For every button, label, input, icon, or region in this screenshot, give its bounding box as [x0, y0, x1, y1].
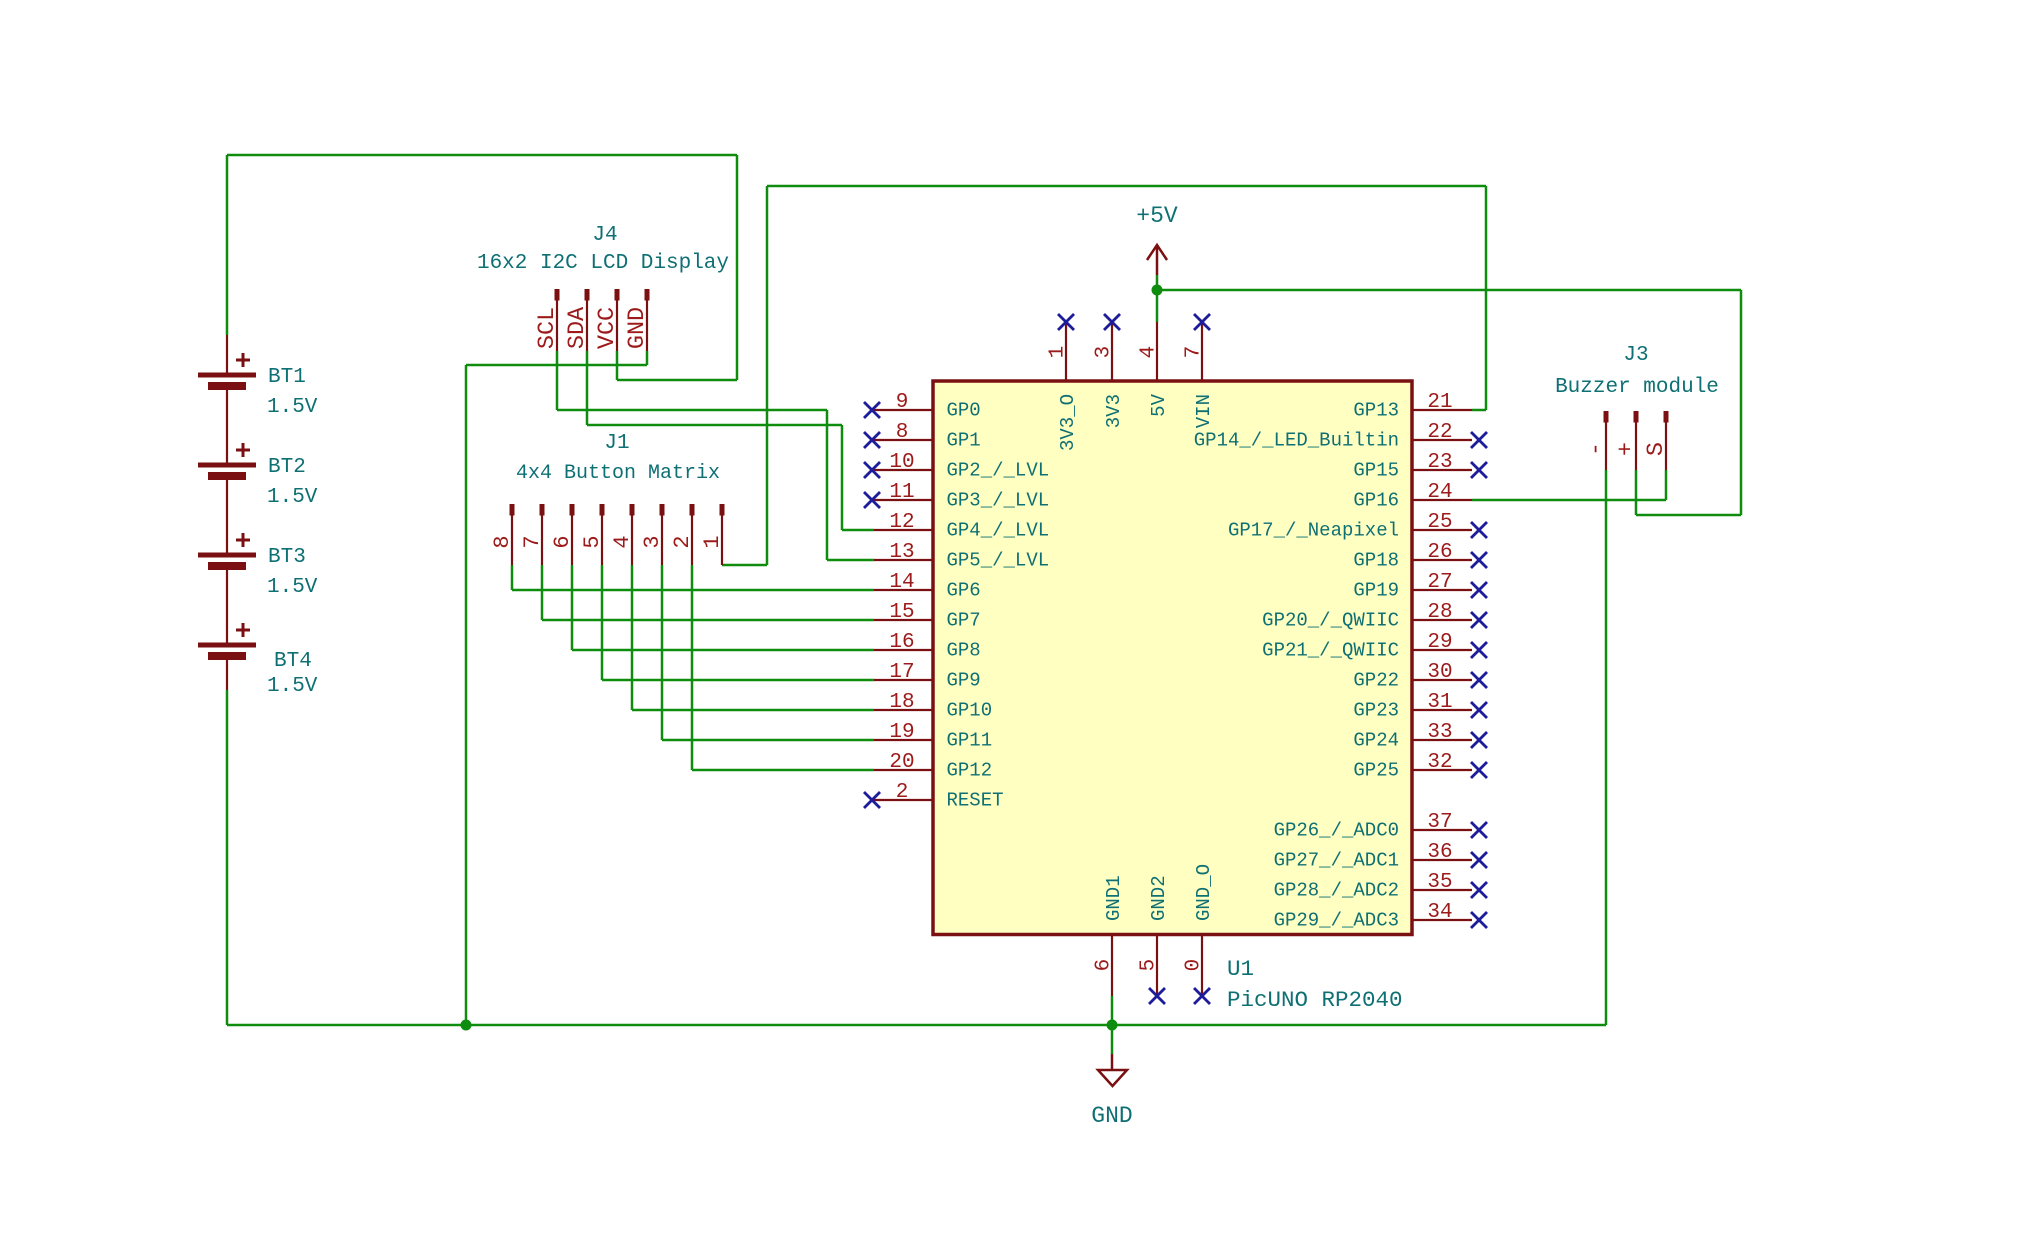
svg-text:7: 7 [520, 535, 545, 548]
pin 33 GP24 of U1 (right) [1353, 721, 1487, 752]
svg-text:GP29_/_ADC3: GP29_/_ADC3 [1274, 910, 1399, 932]
svg-text:30: 30 [1427, 661, 1452, 684]
svg-text:16x2 I2C LCD Display: 16x2 I2C LCD Display [477, 252, 729, 275]
pin 5 GND2 of U1 (bottom) [1138, 875, 1171, 1004]
pin 3 of J1 [640, 504, 665, 565]
wire J4 GND drop [646, 351, 649, 365]
wire J1 pin x662 vertical [661, 565, 664, 740]
svg-text:GND: GND [624, 307, 651, 349]
svg-text:3V3: 3V3 [1103, 394, 1125, 428]
pin 34 GP29_/_ADC3 of U1 (right) [1274, 901, 1487, 932]
svg-text:GND1: GND1 [1103, 875, 1125, 921]
wire SCL vertical [826, 410, 829, 560]
svg-text:5: 5 [580, 535, 605, 548]
pin 16 GP8 of U1 (left) [874, 631, 981, 662]
wire GP13 vertical [1485, 186, 1488, 410]
pin 7 VIN of U1 (top) [1183, 314, 1216, 428]
pin S of J3 [1643, 411, 1670, 470]
svg-text:BT3: BT3 [268, 546, 306, 569]
svg-text:GND_O: GND_O [1193, 864, 1215, 921]
wire GND bottom rail [227, 1024, 1606, 1027]
pin 1 3V3_O of U1 (top) [1047, 314, 1080, 451]
svg-text:GP0: GP0 [947, 400, 981, 422]
wire GP16 to buzzer S [1472, 499, 1666, 502]
battery BT3 [198, 533, 256, 570]
svg-text:3: 3 [1093, 346, 1116, 359]
svg-text:11: 11 [889, 481, 914, 504]
svg-text:GP9: GP9 [947, 670, 981, 692]
pin 3 3V3 of U1 (top) [1093, 314, 1126, 428]
svg-text:8: 8 [896, 421, 909, 444]
svg-text:10: 10 [889, 451, 914, 474]
svg-text:16: 16 [889, 631, 914, 654]
pin GND of J4 [624, 289, 651, 351]
svg-text:1.5V: 1.5V [267, 576, 318, 599]
IC U1 PicUNO RP2040 body [933, 381, 1412, 935]
wire +5V to 5V pin [1156, 275, 1159, 322]
wire battery bottom vertical [226, 690, 229, 1025]
svg-text:2: 2 [896, 781, 909, 804]
svg-text:GP12: GP12 [947, 760, 993, 782]
wire J1 pin to U1 row 770 [692, 769, 874, 772]
wire J1 pin to U1 row 620 [542, 619, 874, 622]
junction GND rail / GND1 [1107, 1020, 1118, 1031]
svg-text:S: S [1643, 442, 1670, 456]
svg-text:GP21_/_QWIIC: GP21_/_QWIIC [1262, 640, 1399, 662]
svg-text:15: 15 [889, 601, 914, 624]
wire J1 pin1 stub [722, 564, 767, 567]
svg-text:3V3_O: 3V3_O [1057, 394, 1079, 451]
pin 20 GP12 of U1 (left) [874, 751, 992, 782]
pin 30 GP22 of U1 (right) [1353, 661, 1487, 692]
wire VCC horizontal [617, 379, 737, 382]
wire GND1 to GND symbol [1111, 996, 1114, 1054]
svg-text:9: 9 [896, 391, 909, 414]
svg-text:18: 18 [889, 691, 914, 714]
svg-text:GP3_/_LVL: GP3_/_LVL [947, 490, 1050, 512]
pin 28 GP20_/_QWIIC of U1 (right) [1262, 601, 1487, 632]
svg-text:SCL: SCL [534, 307, 561, 349]
svg-text:6: 6 [1093, 959, 1116, 972]
svg-text:1.5V: 1.5V [267, 675, 318, 698]
svg-text:36: 36 [1427, 841, 1452, 864]
svg-text:1: 1 [1047, 346, 1070, 359]
svg-text:19: 19 [889, 721, 914, 744]
pin 22 GP14_/_LED_Builtin of U1 (right) [1194, 421, 1487, 452]
wire +5V horizontal [1157, 289, 1741, 292]
wire J4 VCC drop [616, 351, 619, 380]
wire BT1+ to J4 VCC top horizontal [227, 154, 737, 157]
wire J1 pin to U1 row 590 [512, 589, 874, 592]
pin SDA of J4 [564, 289, 591, 351]
svg-text:7: 7 [1183, 346, 1206, 359]
pin - of J3 [1583, 411, 1610, 470]
svg-text:6: 6 [550, 535, 575, 548]
svg-text:GP2_/_LVL: GP2_/_LVL [947, 460, 1050, 482]
svg-text:28: 28 [1427, 601, 1452, 624]
svg-text:GP13: GP13 [1353, 400, 1399, 422]
pin 13 GP5_/_LVL of U1 (left) [874, 541, 1049, 572]
svg-text:GP19: GP19 [1353, 580, 1399, 602]
svg-text:GP1: GP1 [947, 430, 981, 452]
pin 35 GP28_/_ADC2 of U1 (right) [1274, 871, 1487, 902]
pin 24 GP16 of U1 (right) [1353, 481, 1472, 512]
pin 18 GP10 of U1 (left) [874, 691, 992, 722]
pin 27 GP19 of U1 (right) [1353, 571, 1487, 602]
svg-text:GP11: GP11 [947, 730, 993, 752]
pin 1 of J1 [700, 504, 725, 565]
svg-text:14: 14 [889, 571, 914, 594]
svg-text:GP5_/_LVL: GP5_/_LVL [947, 550, 1050, 572]
svg-text:GP15: GP15 [1353, 460, 1399, 482]
wire SCL into GP5 [827, 559, 874, 562]
wire J4 SCL drop [556, 351, 559, 410]
svg-text:5: 5 [1138, 959, 1161, 972]
wire buzzer S drop [1665, 470, 1668, 500]
svg-text:25: 25 [1427, 511, 1452, 534]
svg-text:VIN: VIN [1193, 394, 1215, 428]
junction +5V node [1152, 285, 1163, 296]
pin 7 of J1 [520, 504, 545, 565]
pin 17 GP9 of U1 (left) [874, 661, 981, 692]
pin 23 GP15 of U1 (right) [1353, 451, 1487, 482]
svg-text:GP16: GP16 [1353, 490, 1399, 512]
svg-text:1.5V: 1.5V [267, 486, 318, 509]
svg-text:Buzzer module: Buzzer module [1555, 376, 1719, 399]
battery BT4 [198, 623, 256, 660]
svg-text:31: 31 [1427, 691, 1452, 714]
svg-text:GP27_/_ADC1: GP27_/_ADC1 [1274, 850, 1399, 872]
pin 5 of J1 [580, 504, 605, 565]
svg-text:J3: J3 [1623, 344, 1648, 367]
svg-text:8: 8 [490, 535, 515, 548]
pin SCL of J4 [534, 289, 561, 351]
wire +5V right vertical [1740, 290, 1743, 515]
pin 10 GP2_/_LVL of U1 (left) [864, 451, 1049, 482]
svg-text:+: + [1613, 442, 1640, 456]
wire J1 pin to U1 row 710 [632, 709, 874, 712]
pin 4 of J1 [610, 504, 635, 565]
wire J1 pin1 riser [766, 186, 769, 565]
pin 14 GP6 of U1 (left) [874, 571, 981, 602]
svg-text:BT2: BT2 [268, 456, 306, 479]
svg-text:13: 13 [889, 541, 914, 564]
svg-text:RESET: RESET [947, 790, 1004, 812]
wire J1 pin to U1 row 680 [602, 679, 874, 682]
svg-text:GP10: GP10 [947, 700, 993, 722]
svg-text:22: 22 [1427, 421, 1452, 444]
svg-text:32: 32 [1427, 751, 1452, 774]
svg-text:+5V: +5V [1136, 203, 1178, 229]
wire J4 SDA drop [586, 351, 589, 425]
svg-text:GP28_/_ADC2: GP28_/_ADC2 [1274, 880, 1399, 902]
pin 25 GP17_/_Neapixel of U1 (right) [1228, 511, 1487, 542]
svg-text:4: 4 [1138, 346, 1161, 359]
svg-text:PicUNO RP2040: PicUNO RP2040 [1227, 987, 1403, 1013]
svg-text:J4: J4 [592, 224, 617, 247]
svg-text:23: 23 [1427, 451, 1452, 474]
svg-text:SDA: SDA [564, 306, 591, 349]
ground symbol GND [1098, 1054, 1127, 1086]
pin 37 GP26_/_ADC0 of U1 (right) [1274, 811, 1487, 842]
wire SDA into GP4 [842, 529, 874, 532]
svg-text:37: 37 [1427, 811, 1452, 834]
wire J1 pin x632 vertical [631, 565, 634, 710]
wire buzzer - to GND rail [1605, 470, 1608, 1025]
wire SDA horizontal [587, 424, 842, 427]
svg-text:VCC: VCC [594, 307, 621, 349]
pin 9 GP0 of U1 (left) [864, 391, 981, 422]
wire J1 pin to U1 row 650 [572, 649, 874, 652]
svg-text:4x4 Button Matrix: 4x4 Button Matrix [516, 462, 720, 485]
svg-text:34: 34 [1427, 901, 1452, 924]
pin 19 GP11 of U1 (left) [874, 721, 992, 752]
wire J1 pin x572 vertical [571, 565, 574, 650]
pin 8 of J1 [490, 504, 515, 565]
svg-text:GP18: GP18 [1353, 550, 1399, 572]
pin 4 5V of U1 (top) [1138, 322, 1171, 417]
wire J1 pin x602 vertical [601, 565, 604, 680]
svg-text:GP20_/_QWIIC: GP20_/_QWIIC [1262, 610, 1399, 632]
wire J1 pin x692 vertical [691, 565, 694, 770]
wire battery top vertical [226, 155, 229, 335]
svg-text:12: 12 [889, 511, 914, 534]
svg-text:GP23: GP23 [1353, 700, 1399, 722]
pin 31 GP23 of U1 (right) [1353, 691, 1487, 722]
pin 36 GP27_/_ADC1 of U1 (right) [1274, 841, 1487, 872]
svg-text:GP8: GP8 [947, 640, 981, 662]
svg-text:GP17_/_Neapixel: GP17_/_Neapixel [1228, 520, 1399, 542]
svg-text:BT4: BT4 [274, 650, 312, 673]
wire SDA vertical [841, 425, 844, 530]
junction GND rail / J4 GND [461, 1020, 472, 1031]
wire buzzer + drop [1635, 470, 1638, 515]
wire buzzer + horizontal [1636, 514, 1741, 517]
wire J1 pin1 to GP13 top horizontal [767, 185, 1486, 188]
battery BT1 [198, 353, 256, 390]
svg-text:J1: J1 [604, 432, 629, 455]
svg-text:2: 2 [670, 535, 695, 548]
svg-text:GP22: GP22 [1353, 670, 1399, 692]
wire J4 GND horizontal [466, 364, 647, 367]
pin 0 GND_O of U1 (bottom) [1183, 864, 1216, 1004]
pin 6 of J1 [550, 504, 575, 565]
svg-text:3: 3 [640, 535, 665, 548]
svg-text:17: 17 [889, 661, 914, 684]
pin 8 GP1 of U1 (left) [864, 421, 981, 452]
wire GND left vertical [465, 365, 468, 1025]
pin 11 GP3_/_LVL of U1 (left) [864, 481, 1049, 512]
wire battery pin segments [226, 335, 228, 373]
pin VCC of J4 [594, 289, 621, 351]
pin 2 of J1 [670, 504, 695, 565]
svg-text:GP24: GP24 [1353, 730, 1399, 752]
svg-text:26: 26 [1427, 541, 1452, 564]
wire VCC riser [736, 155, 739, 380]
svg-text:27: 27 [1427, 571, 1452, 594]
pin 6 GND1 of U1 (bottom) [1093, 875, 1126, 996]
battery BT2 [198, 443, 256, 480]
svg-text:GP25: GP25 [1353, 760, 1399, 782]
svg-text:33: 33 [1427, 721, 1452, 744]
svg-text:1: 1 [700, 535, 725, 548]
wire J1 pin x542 vertical [541, 565, 544, 620]
svg-text:21: 21 [1427, 391, 1452, 414]
svg-text:5V: 5V [1148, 393, 1170, 416]
pin 12 GP4_/_LVL of U1 (left) [874, 511, 1049, 542]
svg-text:29: 29 [1427, 631, 1452, 654]
wire J1 pin to U1 row 740 [662, 739, 874, 742]
pin 32 GP25 of U1 (right) [1353, 751, 1487, 782]
svg-text:GP14_/_LED_Builtin: GP14_/_LED_Builtin [1194, 430, 1399, 452]
svg-text:GND: GND [1091, 1103, 1132, 1129]
pin 15 GP7 of U1 (left) [874, 601, 981, 632]
pin 29 GP21_/_QWIIC of U1 (right) [1262, 631, 1487, 662]
svg-text:0: 0 [1183, 959, 1206, 972]
wire GP13 stub [1472, 409, 1486, 412]
svg-text:4: 4 [610, 535, 635, 548]
svg-text:U1: U1 [1227, 956, 1254, 982]
svg-text:GP26_/_ADC0: GP26_/_ADC0 [1274, 820, 1399, 842]
svg-text:24: 24 [1427, 481, 1452, 504]
svg-text:GP4_/_LVL: GP4_/_LVL [947, 520, 1050, 542]
svg-text:GP6: GP6 [947, 580, 981, 602]
svg-text:35: 35 [1427, 871, 1452, 894]
pin 21 GP13 of U1 (right) [1353, 391, 1472, 422]
svg-text:-: - [1583, 442, 1610, 456]
power symbol +5V [1147, 245, 1167, 275]
pin 26 GP18 of U1 (right) [1353, 541, 1487, 572]
svg-text:GND2: GND2 [1148, 875, 1170, 921]
svg-text:20: 20 [889, 751, 914, 774]
pin + of J3 [1613, 411, 1640, 470]
svg-text:1.5V: 1.5V [267, 396, 318, 419]
svg-text:BT1: BT1 [268, 366, 306, 389]
svg-text:GP7: GP7 [947, 610, 981, 632]
pin 2 RESET of U1 (left) [864, 781, 1004, 812]
wire SCL horizontal [557, 409, 827, 412]
wire J1 pin x512 vertical [511, 565, 514, 590]
